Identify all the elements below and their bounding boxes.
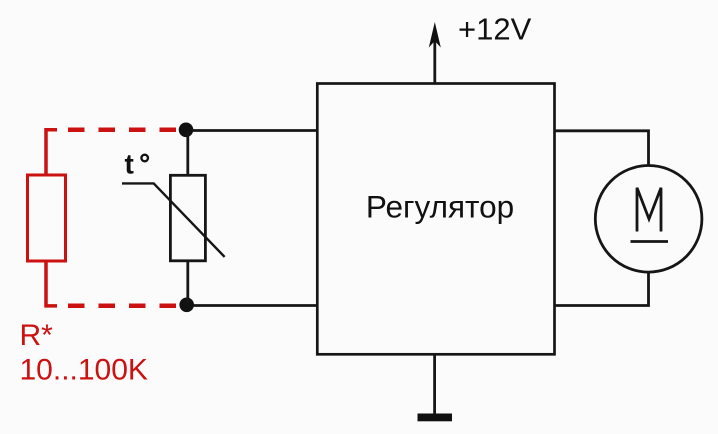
wire (red, top lead of R1 with corner) — [46, 130, 57, 176]
wire (red dashed, bottom, R1 to node B) — [68, 304, 176, 309]
wire (motor bottom back to box right) — [555, 272, 649, 306]
node B (bottom junction dot) — [179, 298, 194, 313]
ground (bar symbol) — [418, 414, 453, 422]
wire (box right to motor, top) — [555, 131, 649, 166]
svg-text:R*: R* — [20, 319, 54, 352]
svg-text:Регулятор: Регулятор — [366, 189, 514, 225]
node A (top junction dot) — [179, 123, 194, 138]
motor M1 underline — [631, 240, 669, 243]
thermistor RK1 (rectangle body) — [170, 175, 205, 260]
wire (node B to regulator box left, bottom) — [193, 304, 318, 307]
motor M1 letter M — [637, 188, 661, 232]
resistor R1 (red, variable set resistor) — [28, 175, 66, 261]
svg-text:+12V: +12V — [458, 12, 532, 47]
svg-text:10...100K: 10...100K — [20, 354, 148, 387]
wire (red dashed, top, R1 to node A) — [68, 127, 176, 132]
wire (node A to regulator box left, top) — [192, 129, 318, 132]
power arrow head (+12V) — [429, 22, 441, 48]
op-amp U1 regulator box — [317, 84, 554, 355]
wire (thermistor bottom to node B) — [186, 261, 189, 303]
wire (+12V supply lead down to box top) — [433, 38, 436, 84]
motor M1 (circle) — [595, 166, 702, 273]
wire (red, bottom lead of R1 with corner) — [46, 260, 57, 306]
wire (box bottom down to ground) — [433, 355, 436, 415]
svg-text:t: t — [125, 149, 134, 180]
thermistor RK1 diagonal stroke with tail — [122, 183, 225, 257]
wire (node A down to thermistor top) — [186, 132, 189, 176]
